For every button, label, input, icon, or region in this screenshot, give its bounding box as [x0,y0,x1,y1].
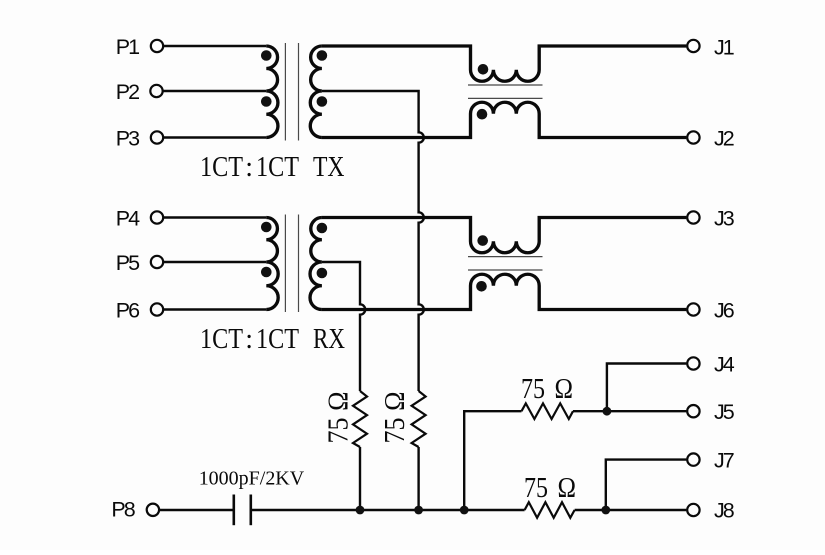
phase dot T2 secondary upper [317,223,328,234]
phase dot L1 winding B [477,109,488,120]
wire P4 lead [164,216,266,218]
wire R1 bottom to rail [359,447,361,510]
wire P1 lead [164,45,266,47]
wire rail resistor R4 to J8 [575,509,687,511]
svg-text:P3: P3 [116,127,140,151]
svg-text:TX: TX [313,152,345,183]
wire T2 secondary center tap with crossover hop, into resistor R1 [322,262,365,391]
pin J4 [687,357,699,369]
svg-text:75: 75 [524,473,548,504]
svg-text:J3: J3 [714,207,735,231]
svg-text:J2: J2 [714,127,734,151]
wire P6 lead [164,308,266,310]
phase dot T1 secondary lower [317,96,328,107]
svg-text:P5: P5 [116,251,140,275]
transformer T1 primary winding [266,46,278,138]
svg-text:1CT: 1CT [200,152,243,183]
pin J2 [687,131,699,143]
label resistor R3 value 75 ohm [521,374,573,405]
choke L1 winding A with leads (T1 secondary top to J1) [322,46,687,81]
svg-text:Ω: Ω [558,473,577,504]
transformer T2 primary winding [266,218,278,310]
pin J6 [687,303,699,315]
svg-text:P4: P4 [116,207,140,231]
choke L2 winding A with leads (T2 secondary top to J3) [322,218,687,253]
capacitor C1 right plate [250,495,253,526]
svg-text:J6: J6 [714,299,735,323]
pin P3 [151,131,163,143]
transformer T2 core [285,215,298,313]
transformer T1 core [285,43,298,141]
choke L1 core [468,85,543,98]
junction dot rail/J7 node [601,506,610,515]
transformer T2 secondary winding [310,218,322,310]
svg-text:J8: J8 [714,499,735,523]
wire branch to resistor R3 (from rail up and across) [464,411,521,510]
svg-text:J1: J1 [714,36,734,60]
wire R3 to J5 [573,410,686,412]
svg-text:1CT: 1CT [256,152,299,183]
resistor R1 75ohm vertical zigzag [353,391,367,447]
junction dot R3/J5 node [603,407,612,416]
choke L2 core [468,257,543,270]
svg-text:P1: P1 [116,35,139,59]
wire P2 lead [164,90,267,92]
svg-text::: : [245,152,253,183]
pin J3 [687,211,699,223]
svg-text:J5: J5 [714,400,735,424]
svg-text:Ω: Ω [555,374,574,405]
wire P3 lead [164,136,266,138]
junction dot R2/rail [414,506,423,515]
transformer T1 secondary winding [310,46,322,138]
svg-text:RX: RX [313,324,345,355]
phase dot T1 primary upper [261,50,272,61]
pin P4 [151,211,163,223]
svg-text:75: 75 [521,374,545,405]
pin J5 [687,405,699,417]
svg-text:P2: P2 [116,80,139,104]
pin J1 [687,40,699,52]
svg-text:J4: J4 [714,353,735,377]
pin P5 [151,256,163,268]
phase dot T2 secondary lower [317,268,328,279]
pin P2 [150,85,162,97]
pin J7 [687,453,699,465]
wire R2 bottom to rail [417,447,419,510]
phase dot L2 winding A [477,235,488,246]
pin J8 [687,504,699,516]
label transformer T2 ratio 1CT:1CT RX [200,324,345,355]
junction dot R1/rail [356,506,365,515]
phase dot T2 primary lower [261,267,272,278]
wire T1 secondary center tap with crossover hops, into resistor R2 and bottom rail [322,91,424,391]
wire junction to J7 [606,460,687,510]
wire P5 lead [164,261,266,263]
pin P6 [151,303,163,315]
svg-text:1CT: 1CT [256,324,299,355]
svg-text:1000pF/2KV: 1000pF/2KV [199,467,305,489]
svg-text:1CT: 1CT [200,324,243,355]
svg-text::: : [245,324,253,355]
resistor R2 75ohm vertical zigzag [412,391,426,447]
wire junction to J4 [607,364,687,412]
choke L1 winding B with leads (T1 secondary bottom to J2) [322,102,687,137]
pin P8 [147,504,159,516]
resistor R3 75ohm horizontal zigzag [522,403,574,419]
svg-text:75 Ω: 75 Ω [380,392,411,444]
wire bottom rail capacitor to resistor R4 [252,509,525,511]
resistor R4 75ohm horizontal zigzag [525,502,575,518]
svg-text:P8: P8 [111,498,135,522]
phase dot L1 winding A [478,64,489,75]
phase dot L2 winding B [476,281,487,292]
choke L2 winding B with leads (T2 secondary bottom to J6) [322,274,687,309]
pin P1 [151,40,163,52]
phase dot T1 primary lower [261,96,272,107]
phase dot T2 primary upper [261,222,272,233]
label resistor R4 value 75 ohm [524,473,576,504]
svg-text:P6: P6 [116,299,140,323]
junction dot branch/rail [460,506,469,515]
label transformer T1 ratio 1CT:1CT TX [200,152,345,183]
capacitor C1 left plate [233,495,236,526]
svg-text:75 Ω: 75 Ω [324,392,355,444]
phase dot T1 secondary upper [317,50,328,61]
svg-text:J7: J7 [714,449,734,473]
wire P8 to capacitor C1 [160,509,233,511]
